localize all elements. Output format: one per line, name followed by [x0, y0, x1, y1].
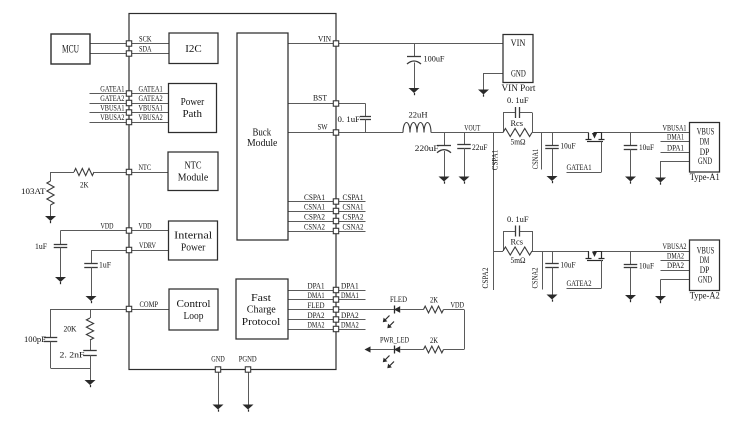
svg-text:Charge: Charge: [247, 304, 276, 316]
svg-text:GATEA2: GATEA2: [139, 93, 163, 103]
svg-text:DMA1: DMA1: [341, 290, 359, 300]
svg-text:PWR_LED: PWR_LED: [380, 335, 409, 345]
svg-text:0. 1uF: 0. 1uF: [338, 114, 361, 124]
svg-text:DPA1: DPA1: [667, 143, 684, 153]
svg-text:Loop: Loop: [184, 310, 204, 322]
svg-text:VIN: VIN: [511, 38, 526, 48]
svg-text:CSPA2: CSPA2: [304, 211, 325, 221]
svg-text:DP: DP: [700, 265, 710, 275]
svg-text:VBUSA2: VBUSA2: [139, 112, 163, 122]
svg-text:0. 1uF: 0. 1uF: [507, 95, 529, 105]
svg-text:VOUT: VOUT: [464, 123, 481, 133]
svg-text:Internal: Internal: [174, 230, 212, 242]
svg-text:103AT: 103AT: [21, 186, 46, 196]
svg-text:DMA2: DMA2: [308, 319, 325, 329]
svg-text:CSNA2: CSNA2: [304, 221, 325, 231]
svg-text:DM: DM: [700, 255, 710, 265]
svg-text:GND: GND: [211, 353, 225, 363]
svg-text:GND: GND: [698, 275, 712, 285]
svg-text:SCK: SCK: [139, 34, 152, 44]
svg-text:NTC: NTC: [139, 162, 152, 172]
svg-text:BST: BST: [313, 93, 328, 103]
svg-text:GND: GND: [698, 156, 712, 166]
svg-text:Rcs: Rcs: [511, 237, 524, 247]
svg-text:CSPA2: CSPA2: [343, 211, 364, 221]
svg-text:DPA1: DPA1: [308, 280, 325, 290]
svg-text:GATEA2: GATEA2: [567, 278, 592, 288]
svg-text:2K: 2K: [430, 295, 439, 305]
svg-text:MCU: MCU: [62, 44, 79, 56]
svg-text:DMA2: DMA2: [667, 251, 684, 261]
svg-text:CSPA2: CSPA2: [480, 268, 490, 289]
svg-text:GATEA2: GATEA2: [100, 93, 124, 103]
svg-text:2. 2nF: 2. 2nF: [60, 350, 85, 360]
svg-text:COMP: COMP: [140, 299, 159, 309]
svg-text:VBUS: VBUS: [697, 245, 714, 255]
svg-text:Power: Power: [181, 242, 206, 254]
svg-text:DPA2: DPA2: [341, 310, 359, 320]
svg-text:VDRV: VDRV: [139, 240, 157, 250]
svg-text:FLED: FLED: [390, 294, 407, 304]
svg-text:VDD: VDD: [139, 220, 152, 230]
svg-text:22uH: 22uH: [409, 110, 428, 120]
svg-text:Fast: Fast: [251, 292, 271, 304]
svg-text:I2C: I2C: [185, 43, 202, 55]
svg-text:VIN Port: VIN Port: [502, 84, 536, 94]
svg-text:VBUSA2: VBUSA2: [663, 241, 687, 251]
svg-text:CSPA1: CSPA1: [304, 192, 325, 202]
svg-text:10uF: 10uF: [639, 260, 654, 270]
svg-text:Path: Path: [182, 108, 202, 120]
svg-text:DMA2: DMA2: [341, 319, 359, 329]
svg-text:DMA1: DMA1: [667, 132, 684, 142]
svg-text:SW: SW: [318, 122, 328, 132]
svg-text:Type-A1: Type-A1: [690, 173, 720, 183]
svg-text:10uF: 10uF: [639, 142, 654, 152]
svg-text:GATEA1: GATEA1: [139, 84, 163, 94]
svg-text:VBUSA2: VBUSA2: [100, 112, 124, 122]
svg-text:VIN: VIN: [318, 34, 331, 44]
svg-text:Protocol: Protocol: [242, 316, 281, 328]
svg-text:VDD: VDD: [451, 299, 465, 309]
svg-text:10uF: 10uF: [561, 259, 576, 269]
svg-text:VBUS: VBUS: [697, 127, 714, 137]
svg-text:DPA2: DPA2: [667, 260, 684, 270]
svg-text:22uF: 22uF: [472, 142, 488, 152]
svg-text:PGND: PGND: [239, 353, 257, 363]
svg-text:Power: Power: [181, 96, 205, 108]
svg-text:5mΩ: 5mΩ: [511, 136, 526, 146]
svg-text:SDA: SDA: [139, 43, 152, 53]
svg-text:CSNA1: CSNA1: [530, 149, 540, 170]
svg-text:CSNA2: CSNA2: [530, 268, 540, 289]
svg-text:0. 1uF: 0. 1uF: [507, 214, 529, 224]
svg-text:Module: Module: [247, 137, 277, 149]
svg-text:100pF: 100pF: [24, 334, 46, 344]
svg-text:2K: 2K: [430, 335, 439, 345]
svg-text:Module: Module: [178, 172, 209, 184]
svg-text:CSNA1: CSNA1: [343, 201, 364, 211]
svg-text:DPA2: DPA2: [308, 310, 325, 320]
svg-text:5mΩ: 5mΩ: [511, 255, 526, 265]
svg-text:FLED: FLED: [308, 300, 325, 310]
svg-text:DPA1: DPA1: [341, 280, 359, 290]
svg-text:GATEA1: GATEA1: [567, 162, 592, 172]
svg-text:VDD: VDD: [101, 220, 114, 230]
svg-text:Control: Control: [177, 298, 211, 310]
svg-text:CSNA2: CSNA2: [343, 221, 364, 231]
svg-text:Type-A2: Type-A2: [690, 291, 720, 301]
svg-text:CSNA1: CSNA1: [304, 201, 325, 211]
svg-text:CSPA1: CSPA1: [343, 192, 364, 202]
svg-text:100uF: 100uF: [424, 53, 445, 63]
svg-text:GATEA1: GATEA1: [100, 84, 124, 94]
svg-text:20K: 20K: [64, 323, 78, 333]
svg-text:2K: 2K: [80, 180, 89, 190]
svg-text:DMA1: DMA1: [308, 290, 325, 300]
svg-text:VBUSA1: VBUSA1: [100, 103, 124, 113]
svg-text:220uF: 220uF: [415, 143, 439, 153]
svg-text:10uF: 10uF: [561, 141, 576, 151]
svg-text:VBUSA1: VBUSA1: [139, 103, 163, 113]
svg-text:GND: GND: [511, 68, 526, 78]
svg-text:Rcs: Rcs: [511, 118, 524, 128]
svg-text:DM: DM: [700, 136, 710, 146]
svg-text:NTC: NTC: [185, 160, 202, 172]
svg-text:CSPA1: CSPA1: [490, 150, 500, 171]
svg-text:1uF: 1uF: [99, 260, 111, 270]
svg-text:1uF: 1uF: [35, 241, 47, 251]
